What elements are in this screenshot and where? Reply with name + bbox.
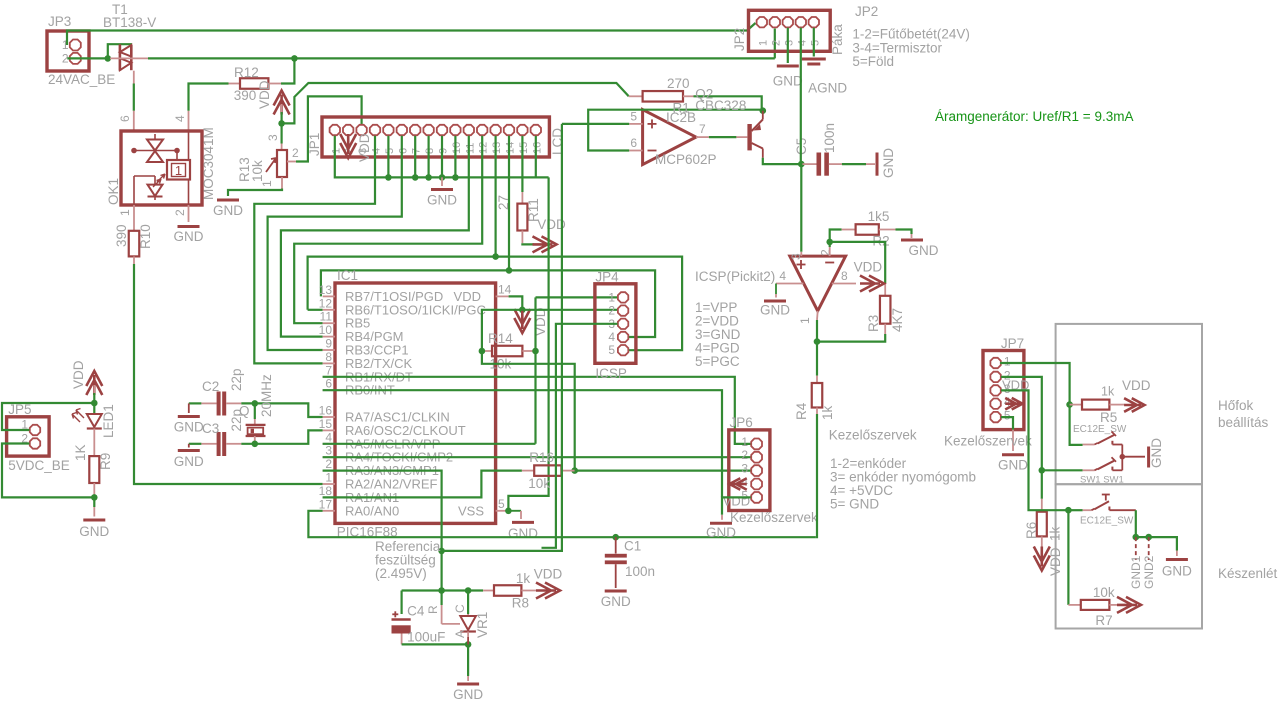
IC1 pin 10 RB4/PGM: [323, 336, 335, 338]
IC1 pin 1 RA2/AN2/VREF: [323, 483, 335, 485]
IC1 pin 2 RA3/AN3/CMP1: [323, 470, 335, 472]
R13 wiper pin2 to LCD pin3: [287, 161, 296, 163]
IC2B - input pin6 feedback: [629, 150, 642, 152]
JP6 pad pin 3: [751, 465, 762, 476]
wire JP5 pin1 to VDD node: [2, 403, 94, 430]
JP2 pad pin 4: [796, 17, 806, 27]
connector JP6 Kezeloszervek: [729, 430, 770, 511]
wire R4 to C1 line: [816, 414, 817, 537]
svg-text:1k5: 1k5: [868, 209, 890, 224]
svg-text:100n: 100n: [822, 123, 837, 153]
wire RB1 row to JP6 pin1: [323, 377, 751, 444]
capacitor C4 100uF: [401, 591, 403, 615]
svg-text:1k: 1k: [1048, 526, 1063, 541]
svg-text:16: 16: [319, 404, 333, 418]
wire OK1 pin4 up and right to R12: [188, 111, 190, 131]
svg-text:5: 5: [384, 148, 396, 154]
svg-text:10k: 10k: [250, 160, 265, 182]
wire LCD pin12 to staircase L4: [294, 136, 482, 323]
svg-text:C1: C1: [624, 539, 641, 554]
wire LCD pin13 level5 PGC net: [495, 136, 497, 257]
IC2B output pin7: [696, 136, 709, 138]
JP7 pad pin 2: [990, 372, 1000, 382]
svg-text:4: 4: [371, 148, 383, 154]
LCD pad pin 7: [410, 125, 420, 135]
JP7 pad pin 4: [990, 399, 1000, 409]
LCD pad pin 11: [464, 125, 474, 135]
JP6 pad pin 5: [751, 492, 762, 503]
LCD pad pin 14: [504, 125, 514, 135]
JP6 pad pin 4: [751, 479, 762, 490]
wire JP5 pin2 to GND rail: [2, 444, 94, 498]
crystal network node A: [189, 402, 202, 404]
svg-text:14: 14: [505, 142, 517, 154]
JP6 pad pin 2: [751, 452, 762, 463]
switch 3 standby: [1068, 509, 1082, 511]
svg-text:15: 15: [319, 417, 333, 431]
svg-text:JP3: JP3: [48, 14, 71, 29]
IC1 pin 12 RB6/T1OSO/1ICKI/PGC: [323, 309, 335, 311]
svg-text:IC1: IC1: [337, 268, 358, 283]
svg-text:GND1: GND1: [1129, 555, 1143, 589]
svg-text:5=PGC: 5=PGC: [695, 354, 740, 369]
svg-text:10k: 10k: [1093, 585, 1115, 600]
GND rotated switches: [1147, 447, 1150, 468]
svg-text:C2: C2: [202, 379, 219, 394]
VDD arrow JP6 pin4: [730, 478, 747, 490]
resistor R2 1k5: [830, 230, 842, 242]
switch 2 encoder B: [1042, 469, 1083, 471]
wire Q2 collector to thermistor node: [763, 158, 802, 164]
JP4 pad pin 1: [618, 292, 628, 302]
VDD down arrow at IC1: [521, 310, 523, 316]
IC2A pin2 inverting node: [829, 247, 831, 256]
wire R12 right up to gate line: [281, 58, 294, 83]
svg-text:GND: GND: [508, 526, 538, 541]
svg-text:6: 6: [325, 377, 332, 391]
svg-text:beállítás: beállítás: [1218, 415, 1269, 430]
svg-text:6: 6: [630, 136, 637, 150]
svg-text:12: 12: [478, 142, 490, 154]
wire switch3 to GND dots: [1136, 510, 1177, 550]
connector JP1 LCD 16-pin: [322, 117, 549, 157]
svg-text:AGND: AGND: [808, 81, 847, 96]
svg-text:VDD: VDD: [534, 567, 563, 582]
svg-text:1k: 1k: [516, 571, 531, 586]
JP2 pad pin 3: [783, 17, 793, 27]
wire LCD pin to rail: [454, 136, 456, 178]
wire VDD pin14 node: [509, 296, 523, 309]
svg-text:1-2=Fűtőbetét(24V): 1-2=Fűtőbetét(24V): [852, 27, 969, 42]
svg-text:11: 11: [464, 143, 476, 154]
svg-text:C3: C3: [202, 421, 219, 436]
LCD pad pin 5: [383, 125, 393, 135]
svg-text:VDD: VDD: [257, 80, 272, 109]
JP4 pad pin 2: [618, 305, 628, 315]
driver box with 1 inside OK1: [167, 160, 190, 180]
svg-text:4: 4: [608, 330, 615, 344]
JP2 pad pin 5: [809, 17, 819, 27]
IC2A output pin1 node: [816, 311, 819, 320]
svg-text:100n: 100n: [625, 564, 655, 579]
svg-text:20MHz: 20MHz: [259, 374, 274, 417]
svg-text:100uF: 100uF: [407, 630, 445, 645]
svg-text:4: 4: [325, 430, 332, 444]
resistor R5 1k: [1070, 404, 1082, 406]
wire LCD pin to rail: [441, 136, 443, 178]
resistor R6 1k pullup: [1041, 470, 1043, 499]
reference distribution wire: [442, 124, 562, 551]
svg-text:C: C: [453, 604, 467, 613]
svg-text:Páka: Páka: [830, 24, 845, 55]
svg-text:5=Föld: 5=Föld: [852, 54, 894, 69]
shunt reference VR1: [467, 591, 469, 615]
wire LCD pin to rail: [535, 136, 537, 178]
svg-text:VDD: VDD: [454, 289, 481, 304]
svg-text:5: 5: [498, 497, 505, 511]
svg-text:BT138-V: BT138-V: [103, 15, 156, 30]
capacitor C2 22p: [217, 392, 221, 416]
resistor R14 10k: [482, 350, 492, 352]
svg-text:GND: GND: [706, 525, 736, 540]
svg-text:1: 1: [175, 163, 182, 178]
LCD pad pin 16: [531, 125, 541, 135]
IC1 pin 8 RB2/TX/CK: [323, 362, 335, 364]
wire LCD pin6 to staircase L2: [268, 136, 402, 350]
svg-text:R10: R10: [138, 224, 153, 249]
IC2A pin3 stub: [800, 252, 802, 256]
wire R1 to Q2 emitter: [694, 96, 762, 110]
wire JP2 pin3 to GND: [787, 28, 789, 63]
GND for C2: [188, 403, 190, 413]
VDD arrow under LCD pin2: [340, 134, 356, 158]
svg-text:JP4: JP4: [595, 270, 619, 285]
svg-text:RA0/AN0: RA0/AN0: [345, 503, 399, 518]
svg-text:VDD: VDD: [71, 360, 86, 389]
svg-text:R9: R9: [98, 453, 113, 470]
capacitor C5 100n: [801, 163, 816, 165]
svg-text:390: 390: [234, 88, 257, 103]
svg-text:6: 6: [397, 148, 409, 154]
wire switch1 to GND dot: [1121, 445, 1123, 457]
svg-text:2: 2: [608, 304, 615, 318]
svg-text:GND: GND: [174, 454, 204, 469]
LCD pad pin 2: [343, 125, 353, 135]
wire R2 right to GND: [896, 230, 912, 235]
svg-text:GND: GND: [1149, 438, 1164, 468]
wire net 24VAC from JP3 pin1 to JP2 pin1: [67, 23, 756, 45]
svg-text:SW1 SW1: SW1 SW1: [1080, 475, 1124, 486]
svg-text:EC12E_SW: EC12E_SW: [1080, 516, 1134, 527]
wire junction up to triac MT2: [108, 44, 132, 58]
svg-text:10: 10: [319, 323, 333, 337]
svg-text:3: 3: [325, 444, 332, 458]
GND for C5 rotated: [876, 153, 879, 176]
op-amp IC2B: [643, 110, 696, 165]
svg-text:R3: R3: [866, 315, 881, 332]
wire RA1 row to R16: [323, 471, 522, 498]
svg-text:OK1: OK1: [106, 178, 121, 205]
IC IC1 PIC16F88: [335, 283, 496, 523]
svg-text:6: 6: [118, 115, 132, 122]
crystal Q 20MHz: [254, 403, 256, 419]
wire button net to JP6 pin3: [575, 470, 751, 472]
svg-text:GND: GND: [601, 594, 631, 609]
potentiometer R13 10k: [281, 123, 283, 143]
connector JP4 ICSP: [595, 284, 636, 364]
svg-text:R8: R8: [512, 596, 529, 611]
svg-text:3: 3: [783, 40, 795, 46]
svg-text:1: 1: [757, 40, 769, 46]
wire RA3 row to reference node: [323, 471, 442, 551]
resistor R3 4K7: [830, 242, 886, 283]
svg-text:1k: 1k: [1101, 385, 1115, 399]
IC1 pin 11 RB5: [323, 322, 335, 324]
VDD arrow at JP5: [86, 371, 102, 395]
svg-text:JP1: JP1: [307, 133, 322, 156]
svg-text:1K: 1K: [73, 444, 88, 461]
svg-text:1: 1: [118, 209, 132, 216]
svg-text:27: 27: [496, 195, 511, 210]
svg-text:22p: 22p: [229, 409, 244, 432]
wire JP3 pin2 to triac junction: [67, 57, 108, 59]
svg-text:390: 390: [114, 224, 129, 247]
svg-text:Kezelőszervek: Kezelőszervek: [730, 510, 818, 525]
svg-text:10: 10: [451, 142, 463, 154]
svg-text:5: 5: [630, 110, 637, 124]
IC2A power pin8 VDD: [832, 283, 856, 285]
connector JP5: [7, 417, 50, 456]
LCD pad pin 9: [437, 125, 447, 135]
svg-text:5: 5: [809, 40, 821, 46]
svg-text:VDD: VDD: [854, 260, 883, 275]
svg-text:MOC3041M: MOC3041M: [201, 127, 216, 200]
svg-text:2: 2: [292, 146, 299, 160]
svg-text:24VAC_BE: 24VAC_BE: [48, 72, 115, 87]
svg-text:7: 7: [325, 363, 332, 377]
svg-text:18: 18: [319, 484, 333, 498]
GND for C3: [188, 444, 190, 448]
wire LCD pin to rail: [414, 136, 416, 178]
svg-text:2: 2: [770, 40, 782, 46]
LCD pad pin 12: [477, 125, 487, 135]
svg-text:4: 4: [796, 40, 808, 46]
svg-text:GND: GND: [174, 229, 204, 244]
LED inside OK1: [148, 185, 163, 196]
svg-text:R4: R4: [794, 402, 809, 420]
svg-text:9: 9: [325, 337, 332, 351]
IC1 pin 7 RB1/RX/DT: [323, 376, 335, 378]
JP7 pad pin 5: [990, 412, 1000, 422]
svg-text:14: 14: [498, 283, 512, 297]
svg-text:5VDC_BE: 5VDC_BE: [8, 458, 70, 473]
svg-text:2: 2: [741, 448, 748, 462]
svg-text:R6: R6: [1024, 522, 1039, 539]
resistor R1 270: [629, 95, 643, 97]
svg-text:GND: GND: [760, 303, 790, 318]
connector JP7: [983, 351, 1024, 430]
wire LCD pin14 level6 PGD net: [508, 136, 510, 271]
svg-text:(2.495V): (2.495V): [375, 566, 427, 581]
capacitor C1 100n: [615, 537, 617, 553]
GND below R9: [93, 497, 95, 507]
svg-text:9: 9: [438, 148, 450, 154]
capacitor C3 22p: [217, 432, 221, 456]
svg-text:270: 270: [667, 76, 690, 91]
IC1 pin 14 VDD: [496, 295, 509, 297]
wire R14 right MCLR/VPP net: [534, 297, 536, 443]
svg-text:GND: GND: [998, 458, 1028, 473]
wire LCD pin to rail: [387, 136, 389, 178]
svg-text:8: 8: [841, 269, 848, 283]
svg-text:R12: R12: [234, 65, 259, 80]
resistor R12 390: [229, 83, 241, 85]
resistor R16 10k: [522, 470, 534, 472]
svg-text:Hőfok: Hőfok: [1218, 398, 1254, 413]
svg-text:CBC328: CBC328: [695, 98, 746, 113]
connector JP3: [47, 31, 89, 71]
svg-text:VDD: VDD: [723, 494, 750, 509]
IC1 pin 6 RB0/INT: [323, 389, 335, 391]
wire JP2 pin5 to AGND: [813, 28, 815, 57]
JP4 pad pin 3: [618, 319, 628, 329]
wire gate line to JP2 pin2: [148, 57, 775, 59]
wire JP6 pin5 to GND: [722, 497, 751, 514]
wire LCD pin4 to staircase L1: [254, 136, 375, 364]
GND at LCD rail: [441, 177, 443, 186]
IC1 pin 17 RA0/AN0: [323, 510, 335, 512]
svg-text:A: A: [453, 630, 467, 638]
wire rail to VSS GND: [508, 177, 548, 510]
svg-text:1: 1: [798, 317, 812, 324]
JP2 pad pin 1: [757, 17, 767, 27]
svg-text:1: 1: [330, 148, 342, 154]
svg-text:5: 5: [1004, 409, 1011, 423]
wire R10 down to IC1 RA2: [133, 256, 135, 264]
wire C4 to VR1 anode rail: [402, 643, 469, 645]
LCD pad pin 15: [517, 125, 527, 135]
svg-text:VR1: VR1: [475, 612, 490, 638]
wire VDD node left to R14: [482, 310, 522, 351]
svg-text:GND: GND: [909, 243, 939, 258]
JP6 pad pin 1: [751, 439, 762, 450]
svg-text:LED1: LED1: [101, 404, 116, 438]
svg-text:VDD: VDD: [1048, 547, 1063, 576]
wire R14 left to button net: [482, 351, 575, 471]
IC1 pin 4 RA5/MCLR/VPP: [323, 443, 335, 445]
svg-text:GND: GND: [174, 420, 204, 435]
svg-text:GND: GND: [1162, 564, 1192, 579]
svg-text:4: 4: [779, 269, 786, 283]
LCD pad pin 4: [370, 125, 380, 135]
svg-text:13: 13: [319, 283, 333, 297]
LCD pad pin 13: [490, 125, 500, 135]
svg-text:C4: C4: [407, 604, 425, 619]
svg-text:13: 13: [491, 142, 503, 154]
wire reference node down: [441, 551, 443, 591]
resistor R7 10k: [1067, 510, 1069, 605]
triac gate lead: [110, 57, 148, 59]
wire RA0 to R4/C1 line: [308, 511, 815, 537]
svg-text:MCP602P: MCP602P: [655, 152, 717, 167]
wire VDD node to R1 line (diagonal): [282, 83, 629, 123]
svg-text:17: 17: [319, 497, 333, 511]
IC1 pin 9 RB3/CCP1: [323, 349, 335, 351]
LCD pad pin 10: [450, 125, 460, 135]
svg-text:Kezelőszervek: Kezelőszervek: [944, 434, 1032, 449]
grey module box 2 Keszenlet: [1056, 484, 1202, 628]
svg-text:GND: GND: [881, 148, 896, 178]
svg-text:2: 2: [173, 209, 187, 216]
dashed GND1 GND2 stubs: [1135, 537, 1137, 560]
wire JP7 pin5 to GND: [1001, 417, 1013, 430]
connector JP2 Paka: [749, 10, 831, 51]
svg-text:R: R: [426, 605, 440, 614]
svg-text:VDD: VDD: [357, 133, 372, 162]
grey module box 1 Hofok: [1056, 324, 1202, 484]
svg-text:Kezelőszervek: Kezelőszervek: [829, 428, 917, 443]
wire JP4 pin3 GND branch: [542, 324, 618, 548]
svg-text:1: 1: [260, 180, 274, 187]
optocoupler OK1 MOC3041M: [121, 131, 202, 205]
wire JP7 pin1 to R5/switch1: [1000, 363, 1082, 445]
IC1 pin 13 RB7/T1OSI/PGD: [323, 295, 335, 297]
svg-text:ICSP: ICSP: [595, 366, 627, 381]
IC1 pin 16 RA7/ASC1/CLKIN: [323, 416, 335, 418]
JP7 pad pin 3: [990, 385, 1000, 395]
svg-text:5: 5: [608, 343, 615, 357]
svg-text:GND: GND: [427, 193, 457, 208]
VR1 ref pin: [441, 591, 443, 606]
IC2A power pin4 GND: [776, 283, 804, 285]
svg-text:GND: GND: [213, 203, 243, 218]
wire RA4 row to JP6 pin2: [323, 456, 751, 458]
op-amp IC2A triangle: [790, 256, 846, 311]
svg-text:R7: R7: [1095, 613, 1112, 628]
svg-text:3: 3: [741, 462, 748, 476]
R13 pin1 to GND: [281, 177, 283, 189]
svg-text:16: 16: [531, 142, 543, 154]
svg-text:8: 8: [325, 350, 332, 364]
LCD pad pin 1: [330, 125, 340, 135]
LED LED1: [93, 403, 95, 413]
wire VR1 to GND: [467, 644, 469, 676]
VDD arrow near R12: [274, 91, 290, 115]
crystal network node B: [189, 443, 202, 445]
svg-text:10k: 10k: [528, 476, 550, 491]
svg-text:15: 15: [518, 142, 530, 154]
svg-text:1: 1: [1004, 355, 1011, 369]
svg-text:Áramgenerátor: Uref/R1 = 9.3mA: Áramgenerátor: Uref/R1 = 9.3mA: [935, 109, 1133, 124]
svg-text:R5: R5: [1100, 410, 1117, 425]
svg-text:R1: R1: [673, 101, 690, 116]
VDD arrow JP7 pin4: [1005, 398, 1022, 410]
svg-text:5= GND: 5= GND: [830, 497, 879, 512]
switch 1 encoder A: [1083, 444, 1095, 446]
IC1 pin 5 VSS: [496, 510, 509, 512]
svg-text:JP7: JP7: [1001, 336, 1024, 351]
wire RB0 row to JP6 pin5: [323, 390, 722, 497]
svg-text:4K7: 4K7: [890, 308, 905, 332]
LCD pad pin 8: [423, 125, 433, 135]
svg-text:2: 2: [325, 457, 332, 471]
wire LCD pin to rail: [428, 136, 430, 178]
svg-text:VDD: VDD: [1122, 378, 1151, 393]
wire VDD node to JP4 pin2: [522, 309, 617, 311]
svg-text:1: 1: [325, 471, 332, 485]
svg-text:JP5: JP5: [8, 402, 31, 417]
svg-text:JP2: JP2: [732, 28, 747, 51]
